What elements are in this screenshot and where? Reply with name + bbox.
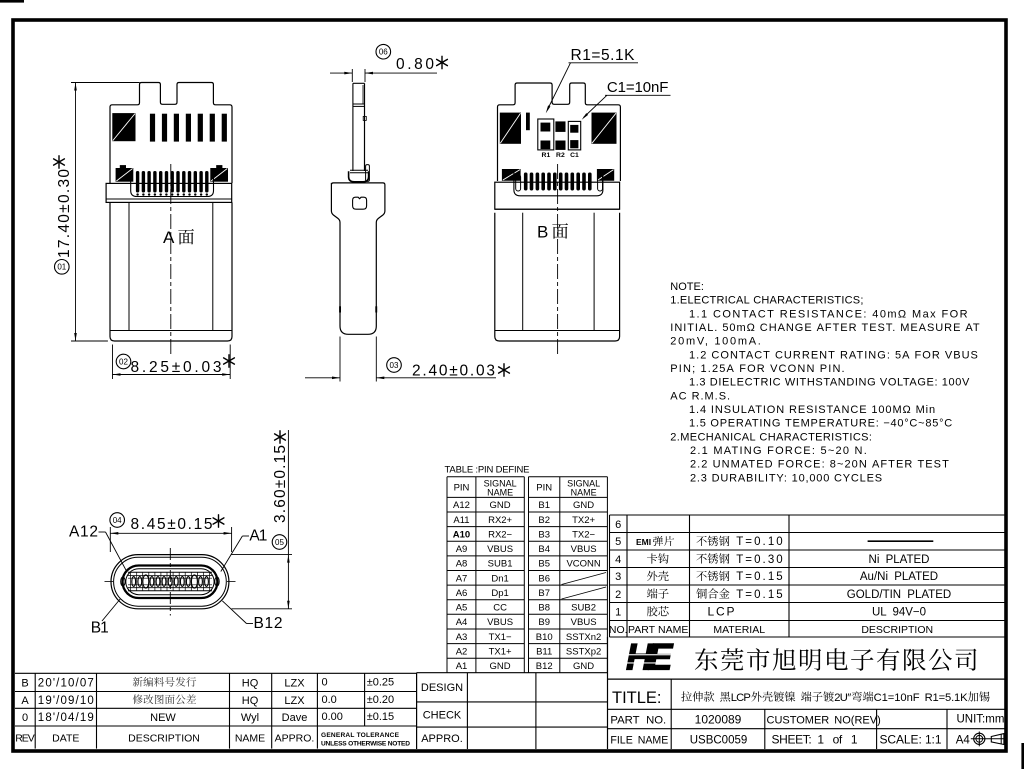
- B-side black pad top-left: [500, 113, 521, 144]
- svg-text:A10: A10: [453, 529, 470, 540]
- svg-text:A1: A1: [249, 528, 267, 545]
- svg-text:5: 5: [615, 536, 621, 548]
- svg-text:SCALE: 1:1: SCALE: 1:1: [880, 733, 942, 747]
- svg-text:2.3 DURABILITY: 10,000 CYCLES: 2.3 DURABILITY: 10,000 CYCLES: [690, 472, 882, 484]
- svg-text:APPRO.: APPRO.: [275, 732, 315, 744]
- svg-text:Dave: Dave: [282, 712, 308, 724]
- svg-text:HQ: HQ: [242, 695, 259, 707]
- svg-text:R1=5.1K: R1=5.1K: [571, 47, 636, 64]
- B-side end capsule contacts: [516, 175, 521, 192]
- svg-text:A: A: [21, 695, 29, 707]
- front view outer shell ring: [111, 555, 229, 609]
- svg-text:T=0.10: T=0.10: [736, 536, 783, 548]
- svg-text:B4: B4: [538, 544, 550, 555]
- front view second ring: [114, 557, 227, 606]
- svg-text:0: 0: [322, 676, 328, 688]
- svg-text:B1: B1: [538, 500, 550, 511]
- svg-text:GND: GND: [490, 500, 511, 511]
- svg-text:CC: CC: [493, 603, 507, 614]
- star mark for 8.45: [213, 515, 224, 527]
- A-side left latch clip: [120, 165, 126, 168]
- svg-text:LZX: LZX: [284, 677, 305, 689]
- A-side centerline: [170, 164, 172, 354]
- svg-text:RX2−: RX2−: [488, 529, 512, 540]
- svg-text:2: 2: [615, 589, 621, 601]
- svg-text:RX2+: RX2+: [488, 515, 512, 526]
- svg-text:8.45±0.15: 8.45±0.15: [131, 516, 213, 533]
- dimension 8.45 extension lines: [109, 527, 111, 552]
- svg-text:USBC0059: USBC0059: [690, 735, 748, 747]
- svg-text:NAME: NAME: [571, 488, 597, 498]
- svg-text:PIN: PIN: [454, 483, 470, 494]
- balloon 04: [110, 513, 125, 528]
- svg-text:PART NO.: PART NO.: [610, 714, 666, 726]
- svg-text:B11: B11: [536, 646, 552, 657]
- svg-text:TX1−: TX1−: [489, 632, 512, 643]
- svg-text:A3: A3: [456, 632, 468, 643]
- dimension 17.40 line with arrows: [75, 83, 77, 342]
- svg-text:A12: A12: [69, 524, 98, 541]
- svg-text:A5: A5: [456, 603, 468, 614]
- svg-text:B7: B7: [538, 588, 550, 599]
- svg-text:A11: A11: [453, 515, 469, 526]
- svg-text:A12: A12: [453, 500, 470, 511]
- svg-text:MATERIAL: MATERIAL: [713, 624, 765, 636]
- dimension 8.45 line with arrows: [110, 532, 231, 534]
- svg-text:PIN; 1.25A FOR VCONN PIN.: PIN; 1.25A FOR VCONN PIN.: [670, 363, 844, 375]
- svg-text:3: 3: [615, 571, 621, 583]
- svg-text:VBUS: VBUS: [571, 544, 597, 555]
- svg-text:4: 4: [615, 554, 621, 566]
- design block grid: [417, 672, 608, 674]
- svg-text:±0.20: ±0.20: [367, 694, 394, 706]
- A-side contact organizer tray: [131, 171, 214, 197]
- svg-text:A4: A4: [956, 734, 971, 746]
- svg-text:1.ELECTRICAL CHARACTERISTICS;: 1.ELECTRICAL CHARACTERISTICS;: [670, 295, 863, 307]
- svg-text:TX2+: TX2+: [572, 515, 595, 526]
- svg-text:SSTXp2: SSTXp2: [566, 646, 601, 657]
- svg-text:Ni PLATED: Ni PLATED: [869, 554, 930, 566]
- A-side shell collar: [106, 183, 232, 202]
- svg-text:20'/10/07: 20'/10/07: [38, 677, 94, 689]
- pin table B6 empty slash: [562, 573, 607, 585]
- side-view blade (PCB edge): [352, 83, 354, 171]
- svg-text:TABLE :PIN DEFINE: TABLE :PIN DEFINE: [445, 465, 530, 476]
- svg-text:B9: B9: [538, 617, 550, 628]
- svg-text:8.25±0.03: 8.25±0.03: [131, 359, 222, 376]
- svg-text:A4: A4: [456, 617, 468, 628]
- B-side left corner wedge: [502, 169, 521, 181]
- svg-text:±0.15: ±0.15: [367, 711, 394, 723]
- svg-text:Au/Ni PLATED: Au/Ni PLATED: [860, 571, 938, 583]
- svg-text:R1: R1: [542, 152, 551, 159]
- svg-text:B6: B6: [538, 573, 550, 584]
- B-side centerline: [557, 164, 559, 354]
- svg-text:3.60±0.15: 3.60±0.15: [272, 445, 289, 523]
- scan tick bottom-right edge: [1021, 743, 1024, 769]
- side-view blade right step mark: [363, 116, 366, 120]
- A-side contact comb teeth: [136, 171, 139, 193]
- svg-text:Wyl: Wyl: [241, 712, 259, 724]
- projection symbol (target circle): [974, 733, 985, 744]
- star mark for 0.80: [437, 56, 448, 68]
- svg-text:B1: B1: [91, 620, 109, 637]
- balloon 03: [387, 358, 402, 373]
- svg-text:A9: A9: [456, 544, 468, 555]
- svg-text:REV: REV: [15, 732, 35, 744]
- svg-text:1.1 CONTACT RESISTANCE: 40mΩ M: 1.1 CONTACT RESISTANCE: 40mΩ Max FOR: [689, 308, 968, 320]
- svg-text:B12: B12: [536, 661, 553, 672]
- svg-text:LCP: LCP: [708, 605, 735, 619]
- svg-text:UNLESS OTHERWISE NOTED: UNLESS OTHERWISE NOTED: [321, 740, 410, 747]
- A-side black pad top-left: [112, 113, 135, 141]
- svg-text:DATE: DATE: [52, 732, 79, 744]
- svg-text:A: A: [163, 228, 175, 247]
- svg-text:04: 04: [113, 516, 122, 525]
- dimension 3.60 extension lines: [232, 554, 293, 556]
- svg-text:HQ: HQ: [242, 677, 259, 689]
- svg-text:Dn1: Dn1: [491, 573, 508, 584]
- svg-text:LCP: LCP: [731, 692, 751, 704]
- dimension 0.80 extension lines: [351, 69, 353, 82]
- svg-text:2.40±0.03: 2.40±0.03: [412, 363, 495, 380]
- svg-text:B: B: [21, 677, 28, 689]
- svg-text:1.4 INSULATION RESISTANCE 100M: 1.4 INSULATION RESISTANCE 100MΩ Min: [689, 404, 935, 416]
- svg-text:NEW: NEW: [150, 712, 176, 724]
- balloon 02: [116, 354, 131, 369]
- svg-text:A8: A8: [456, 559, 468, 570]
- svg-text:GND: GND: [573, 500, 594, 511]
- B-side shell body: [495, 213, 620, 341]
- B-side contact comb teeth: [524, 173, 528, 191]
- svg-text:B12: B12: [254, 615, 283, 632]
- side-view rivet cutout: [353, 197, 367, 209]
- svg-text:1.3 DIELECTRIC WITHSTANDING VO: 1.3 DIELECTRIC WITHSTANDING VOLTAGE: 100…: [689, 377, 970, 389]
- dimension 8.25 line with arrows: [113, 374, 231, 376]
- side-view body outline: [331, 183, 385, 334]
- pin table grid: [446, 477, 448, 673]
- svg-text:0.0: 0.0: [322, 694, 337, 706]
- svg-text:6: 6: [615, 519, 621, 531]
- dimension 17.40 extension lines: [71, 82, 140, 84]
- svg-text:03: 03: [390, 361, 399, 370]
- svg-text:B3: B3: [538, 529, 550, 540]
- svg-text:0.80: 0.80: [396, 56, 434, 73]
- svg-text:18'/04/19: 18'/04/19: [38, 712, 94, 724]
- svg-text:R1=5.1K: R1=5.1K: [925, 692, 969, 704]
- balloon 01: [55, 260, 70, 275]
- svg-text:1020089: 1020089: [695, 712, 742, 726]
- revision table grid: [15, 672, 417, 674]
- title text (Chinese): [681, 691, 692, 701]
- svg-text:17.40±0.30: 17.40±0.30: [56, 169, 73, 258]
- company name: [695, 648, 717, 670]
- svg-text:0: 0: [22, 712, 28, 724]
- svg-text:SUB1: SUB1: [488, 559, 513, 570]
- corner scan tick top-left: [0, 0, 24, 3]
- svg-text:A1: A1: [456, 661, 468, 672]
- A-side right latch clip: [216, 165, 222, 168]
- front view tongue band: [128, 571, 212, 573]
- dimension 8.25 extension lines: [112, 345, 114, 380]
- svg-text:TX2−: TX2−: [572, 529, 595, 540]
- svg-text:01: 01: [57, 263, 66, 272]
- svg-text:C1=10nF: C1=10nF: [607, 79, 669, 96]
- star mark for 17.40: [54, 156, 65, 168]
- svg-text:CUSTOMER NO(REV): CUSTOMER NO(REV): [767, 714, 881, 726]
- svg-text:TX1+: TX1+: [489, 646, 512, 657]
- svg-text:02: 02: [119, 357, 128, 366]
- star mark for 3.60: [275, 431, 286, 443]
- svg-text:SHEET: 1 of 1: SHEET: 1 of 1: [772, 733, 858, 747]
- svg-text:NO.: NO.: [609, 624, 628, 636]
- front view side latch dots: [121, 577, 125, 586]
- side-view solder tail marks: [339, 306, 341, 312]
- svg-text:R2: R2: [556, 152, 565, 159]
- resistor R2 pads: [555, 121, 565, 131]
- material table grid: [610, 514, 1005, 516]
- svg-text:B8: B8: [538, 603, 550, 614]
- svg-text:B2: B2: [538, 515, 550, 526]
- svg-text:LZX: LZX: [284, 695, 305, 707]
- svg-text:SSTXn2: SSTXn2: [566, 632, 601, 643]
- svg-text:VBUS: VBUS: [571, 617, 597, 628]
- svg-text:1.5 OPERATING TEMPERATURE: −40: 1.5 OPERATING TEMPERATURE: −40°C~85°C: [689, 418, 952, 430]
- svg-text:NAME: NAME: [235, 732, 265, 744]
- svg-text:PART NAME: PART NAME: [628, 624, 688, 636]
- svg-text:C1=10nF: C1=10nF: [874, 692, 920, 704]
- svg-text:B5: B5: [538, 559, 550, 570]
- svg-text:GND: GND: [490, 661, 511, 672]
- svg-text:1.2 CONTACT CURRENT RATING: 5A: 1.2 CONTACT CURRENT RATING: 5A FOR VBUS: [689, 349, 978, 361]
- title block outline verticals: [607, 637, 609, 749]
- side-view blade bottom collar: [349, 171, 369, 182]
- svg-text:05: 05: [275, 538, 284, 547]
- svg-text:UL 94V−0: UL 94V−0: [872, 607, 926, 619]
- B-side small slot: [526, 113, 530, 131]
- svg-text:DESCRIPTION: DESCRIPTION: [128, 732, 200, 744]
- svg-text:19'/09/10: 19'/09/10: [38, 695, 94, 707]
- svg-text:A7: A7: [456, 573, 468, 584]
- svg-text:±0.25: ±0.25: [367, 676, 394, 688]
- svg-text:FILE NAME: FILE NAME: [610, 735, 668, 747]
- side-view lower extension lines: [339, 337, 341, 382]
- front view contact ovals: [132, 577, 136, 587]
- A-side vent slots (7): [150, 114, 155, 142]
- B-side black pad top-right: [592, 113, 617, 144]
- svg-text:AC R.M.S.: AC R.M.S.: [670, 390, 730, 402]
- svg-text:DESCRIPTION: DESCRIPTION: [861, 624, 933, 636]
- svg-text:TITLE:: TITLE:: [612, 689, 662, 707]
- svg-text:HE: HE: [626, 637, 674, 678]
- svg-text:T=0.15: T=0.15: [736, 571, 783, 583]
- svg-text:GOLD/TIN PLATED: GOLD/TIN PLATED: [847, 589, 951, 601]
- svg-text:CHECK: CHECK: [423, 709, 462, 721]
- svg-text:SUB2: SUB2: [571, 603, 596, 614]
- A-side shell body: [110, 202, 232, 341]
- svg-text:VCONN: VCONN: [566, 559, 600, 570]
- svg-text:2.MECHANICAL CHARACTERISTICS:: 2.MECHANICAL CHARACTERISTICS:: [670, 431, 872, 443]
- balloon 05: [272, 535, 287, 550]
- B-side PCB outline with top tabs: [498, 83, 621, 181]
- svg-text:A2: A2: [456, 646, 468, 657]
- B-side right corner wedge: [597, 169, 614, 181]
- dimension 3.60 line with arrows: [287, 430, 289, 609]
- balloon 06: [376, 44, 391, 59]
- svg-text:NOTE:: NOTE:: [670, 281, 704, 293]
- front view inner cavity ring: [126, 569, 214, 595]
- svg-text:DESIGN: DESIGN: [421, 682, 463, 694]
- svg-text:T=0.15: T=0.15: [736, 589, 783, 601]
- svg-text:APPRO.: APPRO.: [421, 733, 463, 745]
- svg-text:NAME: NAME: [487, 488, 513, 498]
- star mark for 8.25: [224, 355, 235, 367]
- svg-text:T=0.30: T=0.30: [736, 554, 783, 566]
- front view vertical centerline: [169, 548, 171, 616]
- front view horizontal centerline ticks: [105, 581, 114, 583]
- svg-text:1: 1: [615, 607, 621, 619]
- svg-text:B: B: [537, 222, 548, 241]
- svg-text:VBUS: VBUS: [487, 617, 513, 628]
- svg-text:GND: GND: [573, 661, 594, 672]
- svg-text:UNIT:mm: UNIT:mm: [957, 714, 1005, 726]
- front view contact grid: [130, 572, 132, 591]
- svg-text:GENERAL TOLERANCE: GENERAL TOLERANCE: [321, 732, 400, 739]
- resistor R1 pads and outline: [538, 119, 554, 150]
- B-side shell collar: [495, 182, 620, 209]
- svg-text:2U″: 2U″: [834, 692, 851, 704]
- front view inner thick ring: [123, 566, 218, 599]
- svg-text:2.2 UNMATED FORCE: 8~20N AFTER: 2.2 UNMATED FORCE: 8~20N AFTER TEST: [690, 459, 949, 471]
- title row grid: [608, 708, 1005, 710]
- dimension 0.80 line with outside arrows: [330, 72, 352, 74]
- svg-text:B10: B10: [536, 632, 553, 643]
- svg-text:VBUS: VBUS: [487, 544, 513, 555]
- B-side contact organizer tray: [514, 172, 603, 196]
- svg-text:C1: C1: [570, 152, 579, 159]
- svg-text:A6: A6: [456, 588, 468, 599]
- projection symbol (truncated cone): [991, 734, 1004, 745]
- pin table B7 empty slash: [562, 587, 607, 599]
- svg-text:2.1 MATING FORCE: 5~20 N.: 2.1 MATING FORCE: 5~20 N.: [690, 445, 867, 457]
- capacitor C1 pads and outline: [568, 121, 580, 149]
- dimension 2.40 line with outside arrows: [305, 377, 340, 379]
- svg-text:Dp1: Dp1: [491, 588, 508, 599]
- svg-text:PIN: PIN: [536, 483, 552, 494]
- svg-text:06: 06: [379, 48, 388, 57]
- svg-text:0.00: 0.00: [322, 711, 343, 723]
- star mark for 2.40: [499, 364, 510, 376]
- A-side PCB outline with top tabs: [110, 83, 232, 184]
- svg-text:INITIAL. 50mΩ CHANGE AFTER TES: INITIAL. 50mΩ CHANGE AFTER TEST. MEASURE…: [670, 322, 980, 334]
- svg-text:EMI: EMI: [636, 537, 651, 547]
